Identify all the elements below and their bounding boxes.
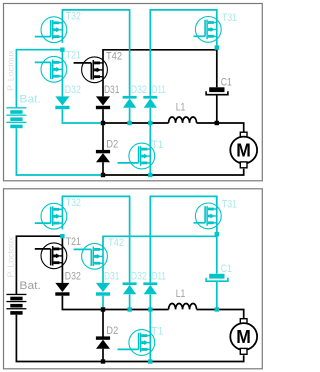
wire: T21 source to diode D32 anode (panel 1) [61, 76, 63, 96]
svg-text:P. Loctoux: P. Loctoux [5, 49, 15, 91]
svg-text:D32: D32 [131, 270, 147, 282]
wire: D2 anode to bottom rail (panel 1) [102, 162, 104, 175]
motor M (panel 2) [240, 319, 247, 325]
wire: left supply rail top (battery + to T32/T21 node) (panel 2) [16, 236, 62, 294]
transistor T32 (panel 1) [41, 17, 67, 43]
svg-text:T31: T31 [222, 12, 237, 24]
wire: D11 cathode to top-right rail to T31 drain (panel 2) [150, 196, 217, 282]
wire: T1 source to bottom rail (panel 2) [149, 350, 151, 362]
svg-text:D11: D11 [152, 270, 166, 282]
svg-text:T32: T32 [66, 197, 81, 209]
svg-text:T1: T1 [151, 139, 163, 151]
svg-text:Bat.: Bat. [19, 280, 41, 292]
transistor T42 (panel 1) [82, 57, 108, 83]
svg-text:D32: D32 [131, 84, 147, 96]
diode D32 (upper center) (panel 1) [123, 96, 137, 99]
wire: D2 node to D2 cathode (panel 1) [102, 123, 104, 150]
wire: D2 anode to bottom rail (panel 2) [102, 349, 104, 362]
diode D32 (freewheel, left) (panel 2) [55, 283, 69, 292]
inductor L1 (panel 1) [169, 117, 197, 123]
wire: C1 bottom plate to node line (panel 2) [216, 281, 218, 309]
node: battery+ / T32 source / T21 drain junction (panel 1) [60, 48, 64, 52]
svg-text:T32: T32 [66, 11, 81, 23]
wire: T32 source to T21 drain (panel 2) [61, 223, 63, 229]
transistor T31 (panel 1) [195, 17, 221, 43]
capacitor C1 (panel 1) [209, 87, 224, 92]
svg-text:D31: D31 [104, 270, 119, 282]
wire: bottom rail D2 node to motor (panel 2) [103, 355, 244, 361]
node: C1 / node line junction (panel 2) [215, 307, 219, 311]
wire: T32 drain to top-left rail down to diode D32 cathode (panel 1) [62, 10, 129, 96]
wire: T1 source to bottom rail (panel 1) [149, 163, 151, 175]
wire: battery - down and bottom rail to D2 node (panel 1) [16, 128, 103, 175]
svg-text:T31: T31 [222, 198, 237, 210]
svg-text:D32: D32 [65, 84, 81, 96]
wire: diode D11 anode through node down to T1 drain (panel 1) [149, 108, 151, 149]
battery Bat. (panel 1) [6, 107, 26, 108]
wire: node to T21 drain (panel 2) [61, 234, 63, 249]
transistor T42 (panel 2) [82, 243, 108, 269]
node: D2 anode / bottom rail junction (panel 2) [101, 359, 105, 363]
svg-text:C1: C1 [221, 76, 232, 88]
wire: diode D31 anode to motor node line (panel 1) [102, 109, 104, 123]
diode D32 (upper center) (panel 2) [123, 282, 137, 285]
wire: T32 drain to top-left rail down to diode D32 cathode (panel 2) [62, 196, 129, 282]
svg-text:C1: C1 [221, 263, 232, 275]
node: upper D32 anode junction (panel 1) [127, 121, 131, 125]
svg-text:D11: D11 [152, 84, 166, 96]
wire: T31 source to C1 node (panel 1) [216, 36, 218, 47]
svg-text:T21: T21 [66, 236, 81, 248]
svg-text:M: M [236, 326, 251, 347]
wire: node to T21 drain (panel 1) [61, 48, 63, 63]
transistor T31 (panel 2) [195, 203, 221, 229]
node: upper D32 anode junction (panel 2) [127, 307, 131, 311]
wire: T42 source to diode D31 cathode (panel 2) [102, 263, 104, 283]
diode D11 (panel 2) [143, 282, 157, 285]
wire: T42 drain up and across to C1 top plate (panel 1) [103, 50, 217, 88]
wire: diode D32 cathode elbow to D31 node (panel 2) [62, 296, 103, 310]
wire: diode D32 (upper) anode to node line (panel 2) [129, 294, 131, 309]
wire: T31 source to C1 node (panel 2) [216, 223, 218, 234]
wire: bottom rail D2 node to motor (panel 1) [103, 169, 244, 175]
node: D31 / D2 / node line junction (panel 2) [101, 307, 105, 311]
svg-text:L1: L1 [176, 288, 186, 300]
diode D11 (panel 1) [143, 96, 157, 99]
svg-text:D32: D32 [65, 270, 81, 282]
svg-text:L1: L1 [176, 102, 186, 114]
transistor T1 (panel 1) [129, 143, 155, 169]
node: T1 source / bottom rail junction (panel 2) [148, 359, 152, 363]
motor M (panel 1) [240, 132, 247, 138]
node: D11 anode / T1 drain junction (panel 2) [148, 307, 152, 311]
node: T1 source / bottom rail junction (panel 1) [148, 173, 152, 177]
diode D2 (panel 1) [96, 150, 110, 153]
wire: node line through L1 to motor (panel 2) [103, 309, 169, 311]
node: T31 source / T42 drain / C1 junction (panel 2) [215, 232, 219, 236]
wire: diode D32 cathode elbow to D31 node (panel 1) [62, 109, 103, 123]
transistor T1 (panel 2) [129, 330, 155, 356]
diode D32 (freewheel, left) (panel 1) [55, 96, 69, 105]
diode D31 (panel 2) [96, 283, 110, 292]
capacitor C1 (panel 2) [209, 274, 224, 279]
wire: diode D31 anode to motor node line (panel 2) [102, 296, 104, 310]
svg-text:P. Loctoux: P. Loctoux [5, 236, 15, 278]
wire: T42 drain up and across to C1 top plate (panel 2) [103, 236, 217, 273]
svg-text:T42: T42 [108, 237, 124, 249]
node: D11 anode / T1 drain junction (panel 1) [148, 121, 152, 125]
wire: T32 source to T21 drain (panel 1) [61, 37, 63, 43]
wire: L1 to motor top corner (panel 2) [197, 310, 244, 319]
wire: T21 source to diode D32 anode (panel 2) [61, 263, 63, 283]
wire: left supply rail top (battery + to T32/T21 node) (panel 1) [16, 50, 62, 108]
svg-text:D2: D2 [106, 325, 118, 337]
svg-text:T42: T42 [106, 51, 122, 63]
svg-text:M: M [236, 140, 251, 161]
wire: T42 source to diode D31 cathode (panel 1) [102, 77, 104, 97]
wire: diode D32 (upper) anode to node line (panel 1) [129, 108, 131, 123]
node: D2 anode / bottom rail junction (panel 1) [101, 173, 105, 177]
diode D2 (panel 2) [96, 336, 110, 339]
transistor T21 (panel 1) [41, 56, 67, 82]
wire: C1 bottom plate to node line (panel 1) [216, 95, 218, 123]
inductor L1 (panel 2) [169, 304, 197, 310]
wire: L1 to motor top corner (panel 1) [197, 123, 244, 132]
wire: D11 cathode to top-right rail to T31 drain (panel 1) [150, 10, 217, 96]
svg-text:T21: T21 [66, 50, 81, 62]
node: D31 / D2 / node line junction (panel 1) [101, 121, 105, 125]
panel border frame (panel 2) [4, 189, 263, 369]
battery Bat. (panel 2) [6, 294, 26, 295]
node: C1 / node line junction (panel 1) [215, 121, 219, 125]
wire: node line through L1 to motor (panel 1) [103, 122, 169, 124]
panel border frame (panel 1) [4, 4, 263, 181]
transistor T21 (panel 2) [41, 243, 67, 269]
transistor T32 (panel 2) [41, 203, 67, 229]
svg-text:Bat.: Bat. [19, 94, 41, 106]
node: battery+ / T32 source / T21 drain junction (panel 2) [60, 234, 64, 238]
wire: battery - down and bottom rail to D2 node (panel 2) [16, 315, 103, 362]
wire: D2 node to D2 cathode (panel 2) [102, 310, 104, 337]
svg-text:D31: D31 [104, 84, 119, 96]
wire: diode D11 anode through node down to T1 drain (panel 2) [149, 294, 151, 335]
node: T31 source / T42 drain / C1 junction (panel 1) [215, 45, 219, 49]
svg-text:D2: D2 [106, 139, 118, 151]
diode D31 (panel 1) [96, 96, 110, 105]
svg-text:T1: T1 [151, 325, 163, 337]
